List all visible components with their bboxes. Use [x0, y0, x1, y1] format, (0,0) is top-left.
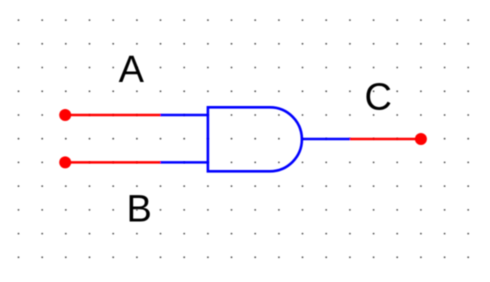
svg-text:A: A	[119, 49, 145, 91]
AND gate U1	[208, 107, 302, 171]
wire red segment to terminal C	[350, 138, 421, 141]
terminal node B (red dot)	[59, 156, 71, 168]
svg-text:B: B	[127, 188, 152, 230]
svg-text:C: C	[365, 76, 392, 118]
terminal node A (red dot)	[59, 109, 71, 121]
wire red segment from terminal B	[65, 161, 160, 164]
terminal node C (red dot)	[415, 133, 427, 145]
wire blue segment from gate output	[302, 138, 350, 141]
wire blue segment to gate input B	[161, 161, 208, 164]
wire red segment from terminal A	[65, 114, 160, 117]
wire blue segment to gate input A	[161, 114, 208, 117]
